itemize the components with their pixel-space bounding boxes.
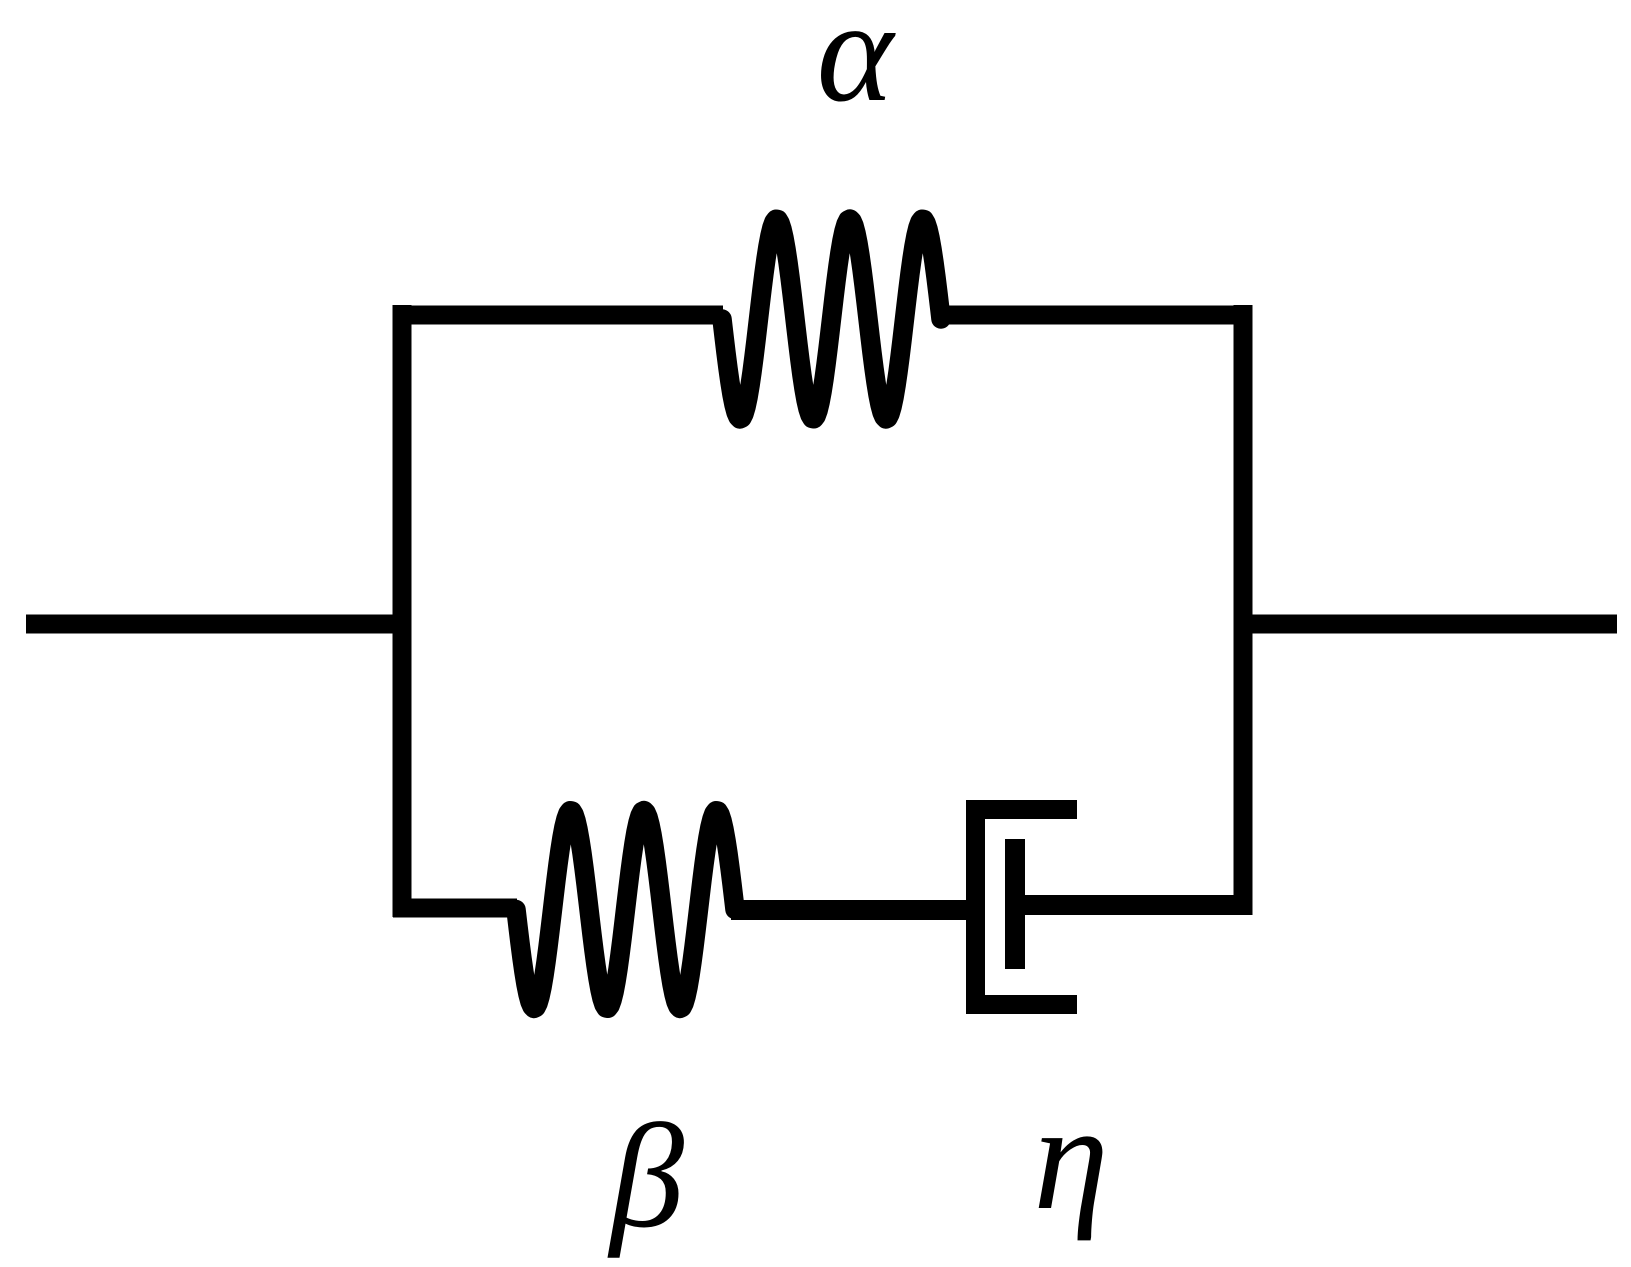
wire: top branch, left segment [393,306,723,325]
wire: right terminal lead [1243,615,1617,634]
wire: left terminal lead [26,615,403,634]
svg-text:α: α [817,0,897,132]
svg-text:β: β [607,1094,684,1259]
wire: bottom branch, left segment [393,899,517,918]
wire: left junction vertical (node joining both branches) [393,305,412,917]
spring α (elastic element, top branch) [722,219,941,419]
wire: right junction vertical (node joining both branches) [1234,305,1253,915]
svg-text:η: η [1033,1073,1108,1241]
dashpot η cylinder (open bracket) [976,810,1078,1005]
wire: top branch, right segment [940,306,1252,325]
wire: bottom branch, middle segment (spring β to dashpot η) [731,900,985,920]
dashpot η piston plate [1005,839,1025,969]
wire: dashpot η piston rod to right junction [1015,895,1248,915]
spring β (elastic element, bottom branch) [516,811,735,1009]
